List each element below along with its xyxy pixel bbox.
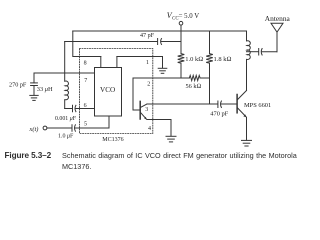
- svg-text:MC1376: MC1376: [102, 137, 123, 143]
- svg-text:VCO: VCO: [100, 86, 115, 94]
- ground pin4: [166, 136, 176, 142]
- svg-text:x(t): x(t): [29, 126, 39, 133]
- wire pin 8 stub into VCO: [100, 57, 102, 68]
- inductor L1 33uH: [65, 81, 68, 100]
- ground emitter: [242, 140, 252, 146]
- svg-text:1.0 μF: 1.0 μF: [58, 133, 74, 139]
- transistor Q2 MPS6601: [237, 91, 247, 118]
- wire 47pF branch: [65, 41, 158, 43]
- svg-text:5: 5: [84, 121, 87, 127]
- wire left column down to coil: [64, 42, 66, 82]
- inductor L2 tank: [247, 41, 250, 60]
- wire pin 1 to ground: [117, 57, 163, 69]
- op-amp U1 VCO box: [95, 68, 122, 117]
- wire divider to base node: [209, 78, 211, 104]
- svg-text:1: 1: [146, 60, 149, 66]
- node x(t) input terminal: [43, 126, 47, 130]
- wire collector up through tank coil: [246, 60, 248, 91]
- svg-text:2: 2: [147, 81, 150, 87]
- resistor R2 1.8k: [206, 31, 213, 78]
- svg-text:47 pF: 47 pF: [140, 33, 155, 39]
- wire pin 7: [34, 72, 95, 74]
- wire emitter to ground: [246, 117, 248, 140]
- ground pin1: [158, 68, 167, 73]
- wire pin 4 to ground: [147, 120, 171, 137]
- resistor R3 56k: [189, 75, 209, 80]
- resistor R1 1.0k: [178, 25, 185, 78]
- svg-text:33 μH: 33 μH: [37, 86, 53, 93]
- svg-text:1.8 kΩ: 1.8 kΩ: [214, 56, 232, 63]
- svg-text:7: 7: [84, 78, 87, 84]
- ground under 270pF: [30, 95, 38, 100]
- svg-text:Antenna: Antenna: [265, 14, 291, 23]
- capacitor C 470pF: [218, 101, 237, 108]
- svg-text:4: 4: [148, 126, 151, 132]
- wire antenna feed with coupling cap: [247, 49, 278, 56]
- wire pin 6 with capacitor 0.001uF: [65, 105, 95, 111]
- capacitor C 270pF: [31, 73, 38, 95]
- wire pin 5 with capacitor 1.0uF: [47, 116, 109, 131]
- wire top supply rail: [73, 30, 247, 32]
- svg-text:= 5.0 V: = 5.0 V: [179, 13, 200, 20]
- wire rail corner into coil: [246, 31, 248, 41]
- svg-text:6: 6: [84, 103, 87, 109]
- wire rail to pin 8 vertical: [73, 31, 101, 57]
- wire pin 3 run: [147, 103, 218, 105]
- antenna: [271, 23, 283, 51]
- svg-text:MPS 6601: MPS 6601: [244, 102, 271, 109]
- wire pin 2 down to base: [133, 78, 140, 110]
- svg-text:270 pF: 270 pF: [9, 81, 27, 88]
- svg-text:8: 8: [84, 61, 87, 67]
- wire coil bottom: [64, 100, 66, 109]
- dashed IC MC1376: [80, 49, 153, 134]
- svg-text:0.001 μF: 0.001 μF: [55, 116, 77, 122]
- caption: [5, 150, 297, 152]
- svg-text:56 kΩ: 56 kΩ: [186, 83, 202, 90]
- node Vcc terminal: [179, 21, 183, 25]
- transistor Q1 internal: [140, 101, 147, 119]
- capacitor C 47pF: [158, 39, 181, 45]
- wire pin 2 run to divider: [133, 77, 189, 79]
- wire pin 1 stub from VCO: [116, 57, 118, 68]
- svg-text:470 pF: 470 pF: [210, 111, 228, 118]
- svg-text:3: 3: [145, 107, 148, 113]
- svg-text:1.0 kΩ: 1.0 kΩ: [185, 56, 203, 63]
